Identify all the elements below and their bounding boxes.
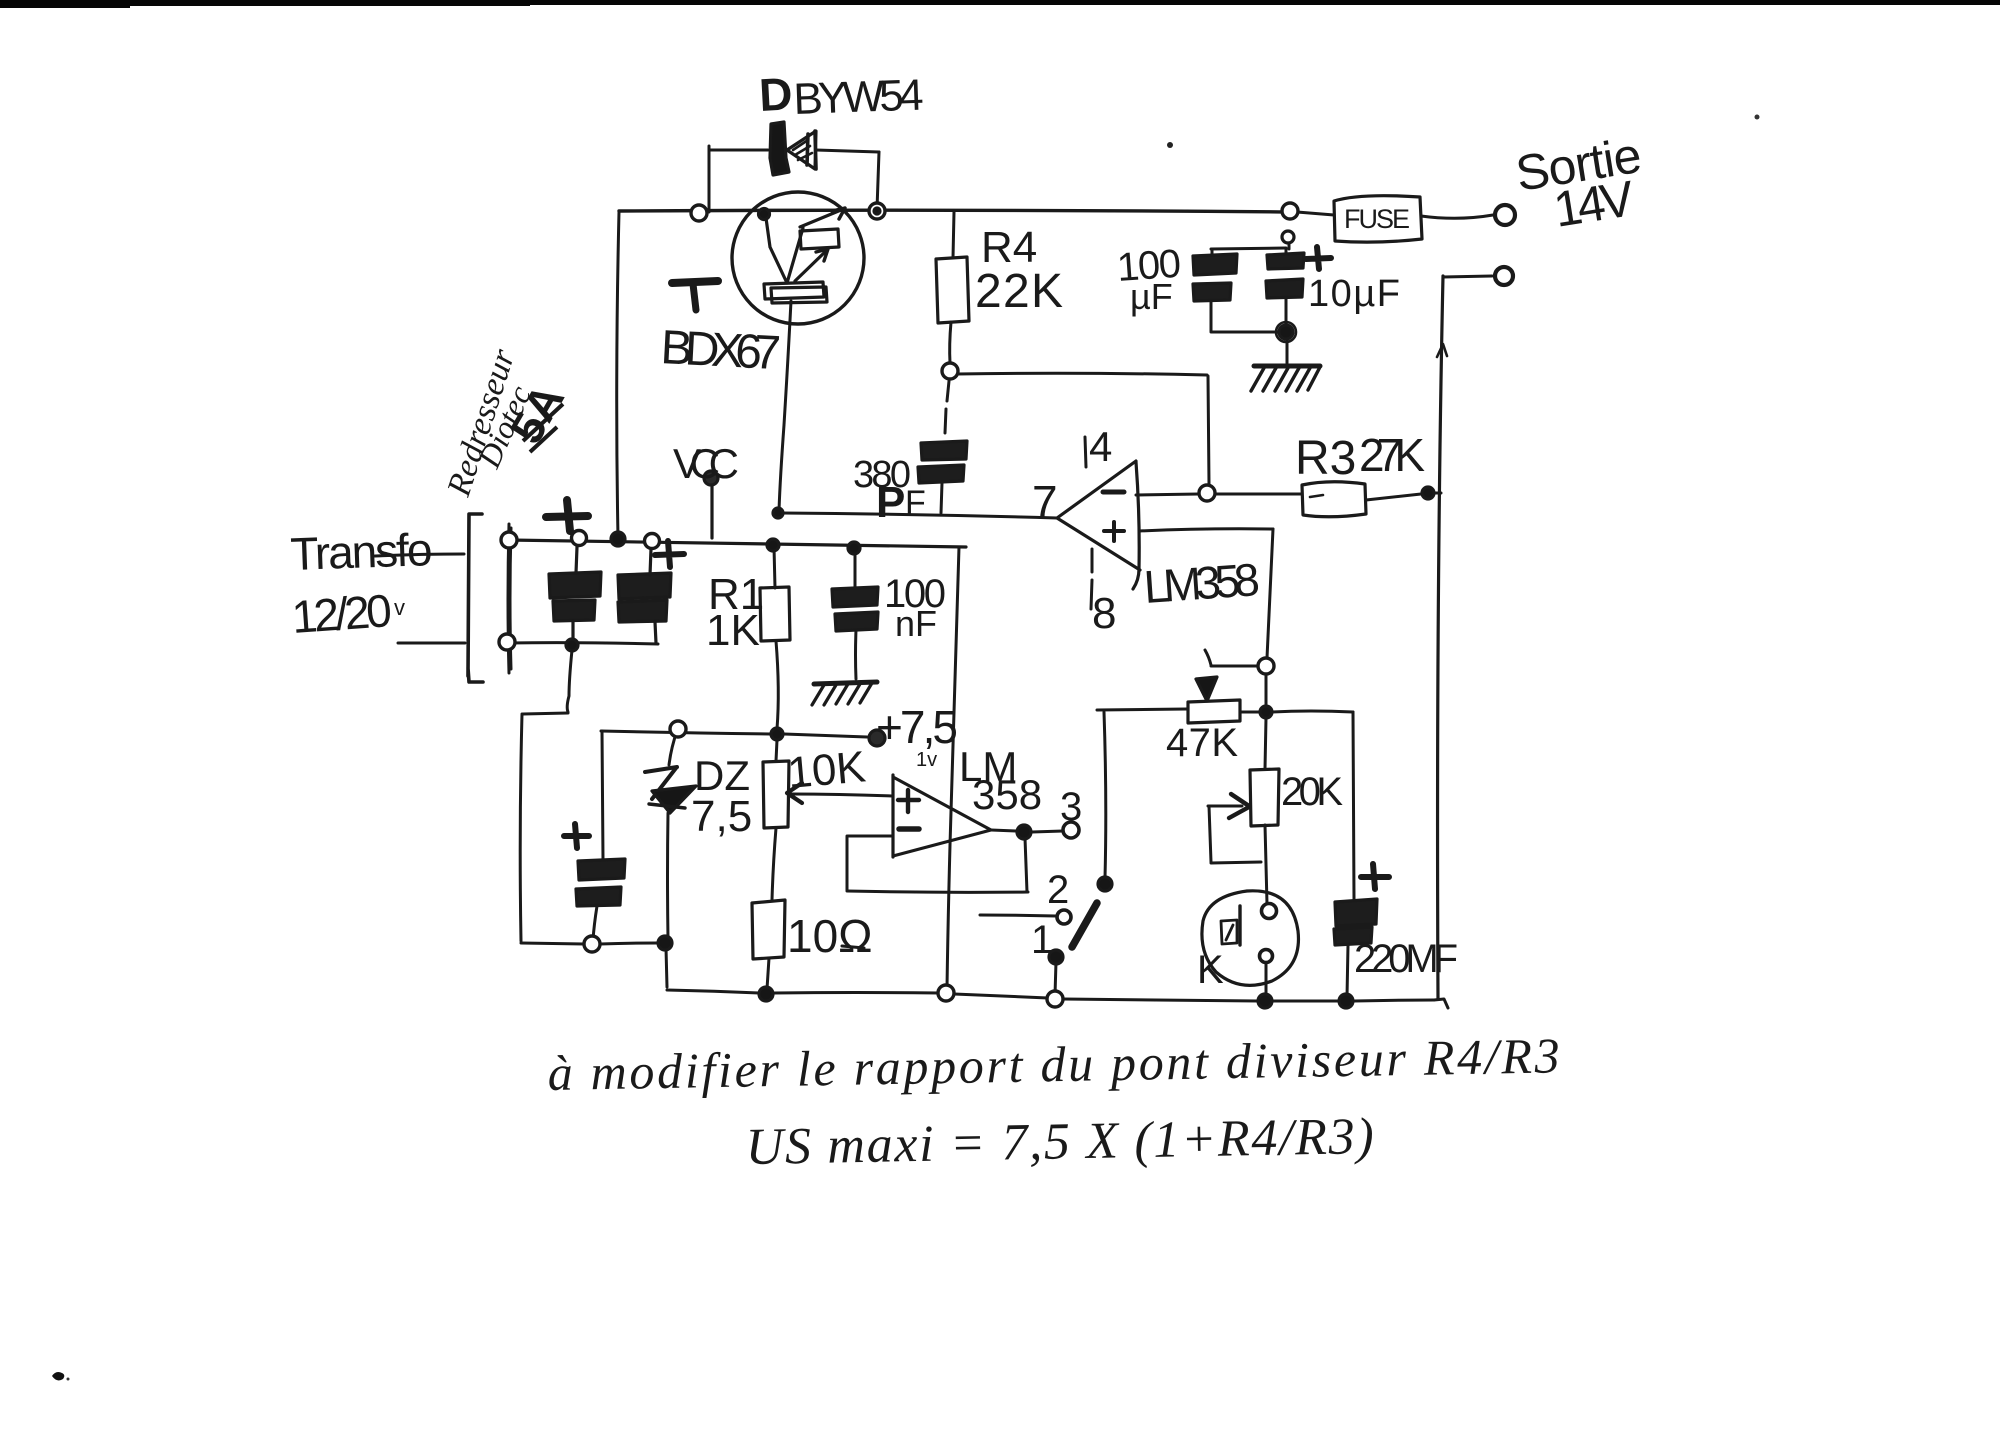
wire corner down to minus node — [1208, 376, 1209, 484]
wire left corner vertical (rail down to VCC rail) — [617, 212, 619, 537]
wire rail to fuse — [1297, 212, 1334, 215]
wire bottom rail segment e — [954, 994, 1048, 998]
speck bottom left — [52, 1372, 64, 1380]
node R1 top filled — [767, 539, 779, 551]
transformer upper terminal — [501, 532, 517, 548]
transistor inner arrow — [795, 251, 826, 281]
filter cap A top stub — [576, 547, 577, 573]
svg-text:2: 2 — [1047, 868, 1069, 912]
wire caps top link — [1211, 248, 1286, 249]
wire diode loop right vertical — [877, 152, 879, 209]
node op-amp1 out / transistor junction — [773, 508, 783, 518]
wire fuse to output terminal — [1421, 215, 1493, 218]
wire caps bottom link — [1211, 331, 1280, 334]
fuse box — [1334, 196, 1422, 242]
node 10ohm bottom filled — [759, 987, 773, 1001]
diode D BYW54 triangle — [787, 131, 816, 169]
wire 20K top lead — [1265, 718, 1266, 769]
wire left bus vertical — [520, 714, 522, 941]
node switch contact 1 filled — [1049, 950, 1063, 964]
svg-text:K: K — [1197, 948, 1224, 992]
ground symbol under filter caps — [1254, 364, 1320, 369]
wire 380pF dashes to R4 node — [945, 381, 949, 433]
VCC terminal — [704, 471, 718, 485]
wire op-amp2 output — [991, 830, 1063, 832]
capacitor 100uF plates — [1193, 254, 1237, 275]
resistor R3 27K body — [1302, 482, 1366, 517]
node VCC rail b filled — [611, 532, 625, 546]
wire switch contact2 lead — [980, 915, 1056, 916]
resistor R1 1K body — [760, 587, 790, 641]
filter cap B bottom stub — [655, 622, 656, 643]
wire op-amp2 minus input — [848, 835, 893, 838]
svg-text:1: 1 — [1031, 918, 1053, 962]
svg-text:10K: 10K — [786, 742, 868, 798]
wire DZ bottom lead — [666, 813, 670, 939]
node small below fuse junction — [1282, 231, 1294, 243]
resistor 10ohm body — [752, 900, 785, 959]
wire R4 bottom lead — [950, 322, 951, 363]
svg-text:10µF: 10µF — [1308, 273, 1400, 315]
aux capacitor plates — [578, 859, 625, 880]
svg-text:v: v — [394, 595, 405, 620]
op-amp U1 minus sign — [1103, 490, 1124, 495]
wire 47K wiper arrow shaft — [1205, 650, 1211, 665]
wire dot to bus — [1434, 492, 1441, 495]
filter capacitor pair B plates — [618, 573, 671, 599]
transistor inner plate upper — [800, 229, 839, 249]
svg-text:12/20: 12/20 — [290, 584, 393, 643]
+7.5 terminal — [869, 730, 885, 746]
plus sign big filter — [546, 500, 588, 531]
wire 47K left lead — [1097, 709, 1187, 710]
wire 47K right lead — [1240, 711, 1260, 714]
transistor collector arrow to rail — [800, 210, 841, 227]
wire ground stub under caps — [1286, 338, 1289, 363]
wire wiper node circle to 47K right junction — [1265, 674, 1268, 706]
svg-text:7: 7 — [1032, 476, 1058, 528]
svg-text:1K: 1K — [706, 606, 760, 655]
node DZ bottom filled — [658, 936, 672, 950]
plus sign filter B — [655, 541, 684, 567]
scanner top edge bar — [0, 0, 2000, 5]
wire op-amp1 pin4 stub — [1085, 437, 1086, 467]
svg-text:22K: 22K — [975, 265, 1063, 318]
svg-text:220MF: 220MF — [1354, 937, 1458, 981]
wire middle bus from VCC rail to bottom rail — [947, 547, 959, 988]
node +7.5 open circle — [670, 721, 686, 737]
node caps bottom junction — [1279, 325, 1293, 339]
wire VCC positive rail — [508, 540, 966, 547]
wire down to 220uF plus — [1353, 712, 1354, 899]
wire op-amp2 feedback bottom — [847, 891, 1028, 892]
wire diode loop left vertical — [708, 146, 711, 212]
node VCC rail a — [572, 531, 587, 546]
transistor Q1 BDX67 circle — [732, 192, 864, 324]
svg-text:Transfo: Transfo — [290, 523, 434, 580]
node switch pole blob — [1098, 877, 1112, 891]
wire bottom rail segment d — [774, 991, 939, 995]
potentiometer 10K wiper arrow — [787, 783, 802, 803]
filter cap A bottom stub — [571, 621, 574, 642]
svg-text:20K: 20K — [1281, 770, 1343, 814]
svg-text:BDX67: BDX67 — [659, 321, 782, 380]
plus sign aux cap — [564, 824, 589, 848]
wire lower output terminal — [1443, 276, 1492, 277]
node R1/10K junction filled — [771, 728, 783, 740]
node mid bus bottom open — [938, 985, 954, 1001]
speck top middle — [1167, 142, 1173, 148]
svg-text:VCC: VCC — [673, 440, 739, 487]
relay coil icon — [1221, 920, 1237, 944]
wire node small circle link — [1288, 243, 1291, 249]
wire op-amp2 feedback right leg — [1025, 838, 1027, 892]
plus sign 10uF — [1306, 247, 1331, 269]
wire step left — [523, 713, 568, 714]
wire bottom rail segment g — [1273, 1000, 1339, 1003]
diode D BYW54 cathode bar — [770, 122, 789, 175]
transformer winding bar — [508, 524, 511, 673]
node 47K right filled — [1260, 706, 1272, 718]
svg-text:1v: 1v — [916, 749, 937, 771]
wire filter caps bottom line — [508, 643, 658, 644]
wire transistor emitter down to op-amp out — [779, 301, 791, 511]
wire op-amp2 plus input from 10K wiper — [789, 794, 892, 796]
filter capacitor pair A plates — [549, 572, 601, 598]
node VCC rail c — [645, 534, 660, 549]
capacitor 220uF plates — [1335, 899, 1377, 926]
op-amp U2 plus sign — [898, 790, 919, 812]
wire down from plus input to wiper node — [1267, 529, 1273, 658]
node 220uF bottom rail filled — [1339, 994, 1353, 1008]
wire right vertical bus — [1438, 276, 1443, 999]
wire 10uF bottom stub — [1285, 298, 1288, 330]
node relay bottom rail filled — [1258, 994, 1272, 1008]
wire bottom rail segment a — [521, 943, 584, 944]
wire 100nF bottom stub — [854, 630, 858, 679]
wire transformer upper lead — [375, 554, 464, 556]
op-amp U2 LM358 triangle — [893, 775, 991, 857]
switch arm — [1072, 903, 1097, 947]
ground symbol under 100nF — [814, 682, 877, 684]
wire top positive rail — [619, 210, 1288, 212]
svg-text:US maxi = 7,5 X (1+R4/R3): US maxi = 7,5 X (1+R4/R3) — [745, 1108, 1374, 1176]
filter cap B top stub — [650, 549, 651, 575]
node filled base junction — [759, 209, 770, 220]
svg-text:LM358: LM358 — [1142, 553, 1261, 613]
wire 47K wiper link to node — [1211, 665, 1258, 668]
svg-text:µF: µF — [1130, 276, 1173, 317]
wire 10uF top stub — [1285, 249, 1288, 254]
wire R1 bottom to +7.5 node — [776, 641, 778, 729]
op-amp U1 plus sign — [1104, 522, 1124, 541]
capacitor 380pF plates — [921, 441, 967, 460]
node R4 bottom — [942, 363, 958, 379]
wire 47K node to 220uF corner — [1272, 711, 1353, 712]
wire 47K left corner down to switch pole — [1104, 712, 1106, 878]
potentiometer 47K body — [1188, 700, 1240, 723]
svg-text:3: 3 — [1060, 785, 1082, 829]
speck top right — [1755, 115, 1760, 120]
wire diode loop top left — [709, 149, 768, 152]
svg-text:4: 4 — [1089, 423, 1112, 470]
wire R1 top lead — [774, 547, 775, 588]
potentiometer 20K wiper arrowhead — [1229, 794, 1249, 818]
node switch bottom open — [1047, 991, 1063, 1007]
svg-text:D: D — [758, 67, 794, 121]
wire op-amp1 pin8 dashes — [1091, 549, 1092, 609]
svg-text:R3: R3 — [1295, 432, 1356, 485]
wire 20K wiper loop bottom — [1211, 862, 1261, 863]
wire 20K bottom lead to relay — [1265, 825, 1267, 904]
transformer lower terminal — [499, 634, 515, 650]
node filter caps bottom filled — [566, 639, 578, 651]
zener DZ 7.5 — [645, 767, 677, 772]
node R3 right dot — [1422, 487, 1434, 499]
wire +7.5 to terminal — [784, 734, 867, 737]
wire op-amp minus input — [1136, 494, 1199, 495]
node minus input junction — [1199, 485, 1215, 501]
potentiometer 47K wiper arrowhead — [1196, 677, 1217, 701]
wire aux cap top stub — [602, 731, 603, 859]
wire 100nF top stub — [854, 548, 857, 588]
wire R4 node to op-amp minus corner — [957, 373, 1207, 375]
relay bottom contact — [1260, 950, 1273, 963]
wire op-amp plus input to 47K node — [1139, 529, 1273, 531]
wire 10K pot to 10ohm — [772, 828, 776, 900]
svg-text:nF: nF — [895, 603, 937, 644]
terminal sortie 14V upper — [1495, 205, 1515, 225]
wire 100uF bottom stub — [1210, 300, 1213, 331]
plus sign 220uF — [1361, 864, 1389, 889]
capacitor 100nF plates — [832, 587, 878, 607]
wire transformer lower lead — [398, 642, 465, 645]
terminal 2 open — [1057, 910, 1071, 924]
wire bottom step down — [666, 948, 667, 987]
terminal sortie lower — [1495, 267, 1513, 285]
wire 20K wiper loop down — [1209, 806, 1211, 862]
node op-amp2 output filled — [1017, 825, 1031, 839]
wire 220uF to bottom rail — [1347, 945, 1348, 997]
wire 20K wiper — [1208, 805, 1242, 808]
svg-text:7,5: 7,5 — [691, 792, 752, 841]
wire +7.5 horizontal — [601, 731, 770, 734]
node aux cap bottom open — [584, 936, 600, 952]
wire 100uF top stub — [1211, 250, 1214, 256]
node open on rail left of transistor — [691, 205, 707, 221]
wire bottom rail segment f — [1063, 999, 1258, 1001]
relay top contact — [1262, 904, 1277, 919]
transistor base V strokes — [766, 218, 803, 283]
node fuse junction — [1282, 203, 1298, 219]
wire diode loop top right — [816, 150, 879, 152]
svg-text:10Ω: 10Ω — [787, 910, 873, 962]
wire R4 top lead — [953, 212, 954, 258]
tick arrow on right bus — [1437, 344, 1447, 357]
wire +7.5 node to 10K pot — [776, 740, 777, 761]
wire bottom rail end hook — [1434, 999, 1448, 1008]
op-amp U2 minus sign — [899, 826, 919, 832]
svg-text:47K: 47K — [1166, 721, 1238, 765]
transistor T symbol — [672, 281, 718, 283]
wire relay to bottom rail — [1265, 962, 1268, 996]
capacitor 10uF plates — [1267, 253, 1304, 269]
resistor R3 inner tick — [1310, 495, 1323, 497]
svg-text:27K: 27K — [1359, 429, 1425, 481]
op-amp U1 LM358 triangle — [1057, 461, 1140, 589]
svg-text:F: F — [905, 484, 926, 522]
resistor 10ohm label dash — [842, 946, 864, 948]
svg-text:358: 358 — [972, 771, 1042, 818]
resistor R4 22K body — [936, 257, 969, 323]
relay K circle — [1202, 891, 1299, 986]
svg-text:8: 8 — [1092, 589, 1116, 638]
node collector right — [869, 203, 885, 219]
potentiometer 20K body — [1250, 769, 1279, 826]
wire filter caps bottom to left bus step — [567, 650, 572, 712]
wire minus node to R3 — [1216, 493, 1302, 496]
wire bottom rail segment c — [667, 990, 759, 993]
wire switch contact1 stub — [1055, 962, 1056, 995]
svg-text:P: P — [876, 478, 905, 527]
wire 380pF bottom stub — [941, 483, 942, 513]
svg-text:FUSE: FUSE — [1344, 204, 1410, 234]
node wiper open circle — [1258, 658, 1274, 674]
wire aux cap bottom stub — [593, 906, 597, 940]
terminal 3 open — [1063, 822, 1079, 838]
wire bottom rail segment h — [1354, 1000, 1434, 1001]
wire 10ohm to bottom rail — [767, 958, 769, 989]
wire op-amp1 output to transistor — [781, 513, 1057, 518]
diode D BYW54 double bar right — [807, 131, 816, 169]
wire R3 to bus dot — [1366, 494, 1421, 500]
svg-text:BYW54: BYW54 — [793, 70, 925, 124]
wire bottom rail segment b — [600, 943, 658, 944]
svg-text:+7,5: +7,5 — [876, 701, 958, 753]
transformer bracket — [468, 514, 483, 682]
wire DZ top lead — [669, 731, 677, 765]
transistor inner plate lower (double) — [764, 282, 827, 303]
potentiometer 10K body — [763, 761, 789, 828]
node 100nF top filled — [848, 542, 860, 554]
wire op-amp2 feedback left leg — [846, 836, 849, 890]
